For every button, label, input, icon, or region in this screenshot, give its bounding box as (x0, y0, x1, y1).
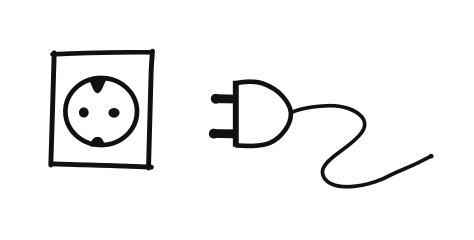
top earth clip (triangle) (89, 76, 106, 93)
cord end tip (428, 154, 433, 159)
bottom earth clip (bump) (90, 137, 105, 147)
plug body D outline (237, 82, 291, 146)
plug bottom prong (214, 129, 234, 138)
plug body back bar (233, 81, 239, 147)
power cord (292, 106, 432, 187)
left pin hole (79, 107, 89, 117)
socket round face (circle) (65, 78, 137, 145)
right pin hole (109, 108, 120, 118)
plug top prong (216, 94, 234, 103)
wall socket plate (rectangle) (51, 51, 153, 168)
